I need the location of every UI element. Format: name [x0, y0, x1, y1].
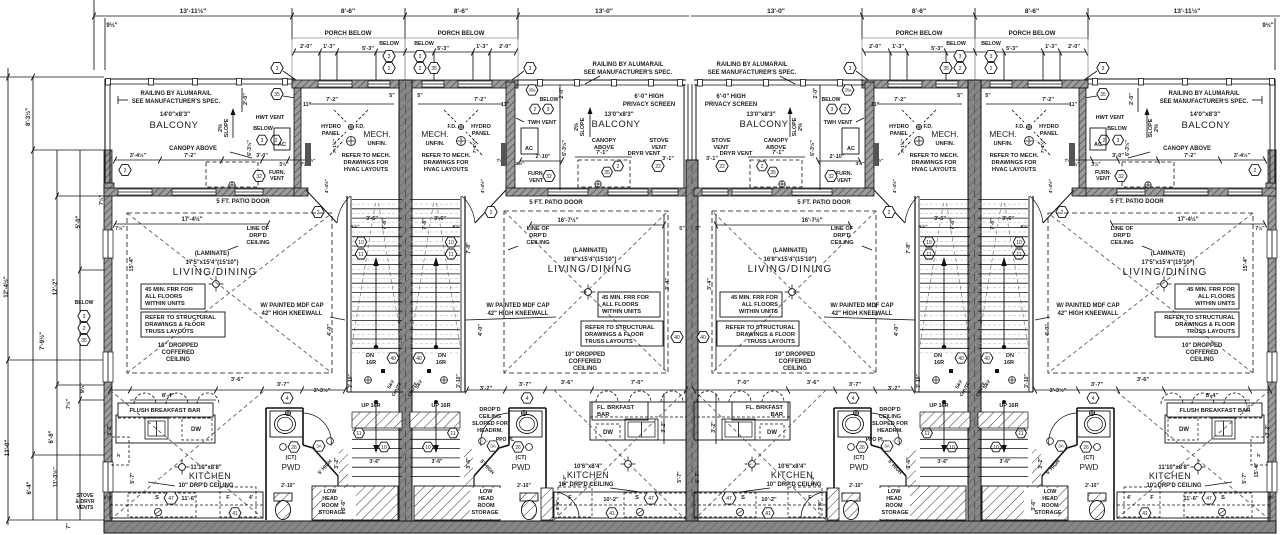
railing post — [106, 79, 111, 86]
svg-text:10: 10 — [381, 445, 387, 451]
svg-text:TWH VENT: TWH VENT — [528, 120, 557, 126]
svg-text:(CT): (CT) — [1084, 455, 1095, 461]
svg-text:SLOPE: SLOPE — [224, 118, 230, 137]
X diag kitchen2 — [554, 390, 686, 520]
svg-text:WITHIN UNITS: WITHIN UNITS — [602, 309, 641, 315]
svg-text:DRYR VENT: DRYR VENT — [628, 151, 661, 157]
svg-text:MECH.: MECH. — [989, 129, 1016, 139]
svg-text:DRP'D: DRP'D — [833, 233, 851, 239]
svg-text:W/ PAINTED MDF CAP: W/ PAINTED MDF CAP — [260, 303, 323, 309]
svg-text:4'-4½": 4'-4½" — [891, 179, 898, 193]
svg-text:(LAMINATE): (LAMINATE) — [1151, 251, 1185, 257]
svg-text:3'-4": 3'-4" — [665, 278, 671, 290]
svg-text:7½": 7½" — [1255, 225, 1265, 232]
svg-text:10'-2": 10'-2" — [761, 497, 777, 503]
X diag kitchen1 — [110, 390, 265, 520]
stool arc unit2 — [661, 391, 683, 402]
svg-text:UNFIN.: UNFIN. — [993, 141, 1012, 147]
storage hatch unit2 — [414, 486, 500, 520]
45min box unit1 — [141, 284, 205, 309]
svg-text:HYDRO: HYDRO — [1039, 124, 1060, 130]
window mech top — [318, 81, 352, 87]
svg-text:DN: DN — [438, 353, 446, 359]
svg-text:42" HIGH KNEEWALL: 42" HIGH KNEEWALL — [488, 311, 549, 317]
svg-text:3: 3 — [388, 54, 391, 60]
window patio2 — [608, 189, 648, 195]
svg-text:UP 16R: UP 16R — [929, 403, 948, 409]
counter band unit1 — [110, 492, 263, 518]
svg-text:9½": 9½" — [79, 382, 86, 393]
svg-text:F.D.: F.D. — [448, 124, 458, 130]
svg-text:3'-4½": 3'-4½" — [1234, 152, 1251, 159]
svg-text:5": 5" — [389, 93, 395, 99]
svg-text:10" DROPPED: 10" DROPPED — [1182, 343, 1223, 349]
svg-text:BELOW: BELOW — [414, 41, 434, 47]
svg-text:2': 2' — [1256, 453, 1262, 457]
svg-text:35: 35 — [431, 66, 437, 72]
margin vline x57 — [56, 150, 58, 520]
svg-text:(LAMINATE): (LAMINATE) — [195, 251, 229, 257]
svg-text:LOW: LOW — [888, 489, 902, 495]
svg-text:PRIVACY SCREEN: PRIVACY SCREEN — [623, 102, 675, 108]
entry door leaf unit2 — [552, 492, 554, 518]
svg-text:12'-4½": 12'-4½" — [3, 276, 10, 298]
svg-text:FURN.: FURN. — [836, 171, 853, 177]
svg-text:LINE OF: LINE OF — [831, 226, 854, 232]
svg-text:7'-8": 7'-8" — [906, 242, 912, 254]
door unit1 — [306, 190, 337, 223]
svg-text:11": 11" — [303, 102, 312, 108]
svg-text:3'-6": 3'-6" — [807, 380, 820, 386]
svg-text:6'-3½": 6'-3½" — [561, 140, 568, 156]
svg-text:10: 10 — [949, 445, 955, 451]
window mech top — [458, 81, 492, 87]
svg-text:11: 11 — [926, 252, 931, 258]
svg-text:3'-0": 3'-0" — [256, 153, 268, 159]
dim extension x518 — [517, 8, 519, 40]
svg-text:47: 47 — [648, 496, 654, 502]
svg-text:DRP'D: DRP'D — [249, 233, 267, 239]
svg-text:32: 32 — [828, 174, 834, 180]
svg-text:4'-0": 4'-0" — [478, 324, 484, 336]
svg-text:LIVING/DINING: LIVING/DINING — [548, 264, 633, 275]
svg-text:DRAWINGS & FLOOR: DRAWINGS & FLOOR — [585, 332, 645, 338]
svg-text:LOW: LOW — [1044, 489, 1058, 495]
svg-text:13'-11½": 13'-11½" — [1174, 7, 1201, 15]
margin hline y196 — [57, 195, 104, 197]
svg-text:10: 10 — [993, 445, 999, 451]
svg-text:32: 32 — [1118, 174, 1124, 180]
svg-text:STOVE: STOVE — [711, 138, 730, 144]
sun kitchen2 — [625, 461, 632, 468]
svg-text:8'-6": 8'-6" — [454, 8, 468, 15]
svg-text:2'-0": 2'-0" — [1068, 44, 1080, 50]
svg-text:14'0"x8'3": 14'0"x8'3" — [160, 111, 190, 118]
svg-text:BELOW: BELOW — [379, 41, 399, 47]
svg-text:COFFERED: COFFERED — [1186, 350, 1219, 356]
svg-text:BALCONY: BALCONY — [150, 120, 199, 131]
svg-text:UP 16R: UP 16R — [999, 403, 1018, 409]
svg-text:3'-7": 3'-7" — [277, 382, 290, 388]
svg-text:10'-2": 10'-2" — [603, 497, 619, 503]
svg-text:HEAD: HEAD — [1042, 496, 1058, 502]
hex3 inner — [524, 63, 536, 74]
svg-text:22: 22 — [655, 164, 661, 170]
svg-text:5": 5" — [695, 226, 701, 232]
svg-text:7'-2": 7'-2" — [474, 97, 486, 103]
svg-text:6½": 6½" — [452, 223, 461, 230]
svg-text:FL. BRKFAST: FL. BRKFAST — [597, 405, 635, 411]
svg-text:REFER TO MECH.: REFER TO MECH. — [422, 153, 471, 159]
svg-text:(LAMINATE): (LAMINATE) — [573, 248, 607, 254]
svg-text:2'-10": 2'-10" — [517, 483, 531, 489]
svg-text:DROP'D: DROP'D — [479, 407, 500, 413]
svg-text:CEILING: CEILING — [573, 366, 597, 372]
svg-text:S: S — [635, 495, 639, 501]
svg-text:4'-0": 4'-0" — [327, 324, 333, 336]
svg-text:42" HIGH KNEEWALL: 42" HIGH KNEEWALL — [832, 311, 893, 317]
svg-text:16'-7½": 16'-7½" — [557, 217, 578, 224]
svg-text:TRUSS LAYOUTS: TRUSS LAYOUTS — [1186, 329, 1235, 335]
counter unit1 — [116, 415, 215, 443]
dw unit1 — [182, 418, 212, 440]
svg-text:SLOPE: SLOPE — [792, 117, 798, 136]
svg-text:5'-3": 5'-3" — [1006, 46, 1018, 52]
svg-text:16R: 16R — [366, 360, 376, 366]
X diag living1 — [127, 213, 332, 373]
window left wall — [103, 462, 113, 492]
svg-text:2: 2 — [490, 210, 493, 216]
svg-text:32: 32 — [256, 174, 262, 180]
svg-text:DROP'D: DROP'D — [879, 407, 900, 413]
svg-text:3: 3 — [831, 107, 834, 113]
svg-text:MECH.: MECH. — [363, 129, 390, 139]
svg-text:KITCHEN: KITCHEN — [189, 471, 231, 481]
svg-text:16R: 16R — [436, 360, 446, 366]
svg-text:7½": 7½" — [65, 398, 72, 409]
svg-text:COFFERED: COFFERED — [162, 350, 195, 356]
svg-text:WITHIN UNITS: WITHIN UNITS — [1195, 301, 1235, 307]
svg-text:3'-2": 3'-2" — [107, 424, 113, 436]
svg-text:35: 35 — [943, 66, 949, 72]
hex2 balcony1 — [119, 165, 131, 176]
svg-text:SEE MANUFACTURER'S SPEC.: SEE MANUFACTURER'S SPEC. — [708, 70, 797, 76]
svg-text:11": 11" — [1069, 102, 1078, 108]
svg-text:BALCONY: BALCONY — [740, 119, 789, 130]
balcony1 corner block — [104, 183, 114, 193]
counter unit2 — [590, 402, 686, 440]
window patio2 — [652, 189, 678, 195]
svg-text:SEE MANUFACTURER'S SPEC.: SEE MANUFACTURER'S SPEC. — [132, 99, 221, 105]
svg-text:HEADRM.: HEADRM. — [877, 428, 903, 434]
svg-text:3½": 3½" — [1091, 161, 1101, 168]
svg-text:SLOPED FOR: SLOPED FOR — [472, 421, 508, 427]
svg-text:CANOPY ABOVE: CANOPY ABOVE — [169, 146, 217, 152]
svg-text:17'5"x15'4"(15'10"): 17'5"x15'4"(15'10") — [1142, 260, 1195, 266]
svg-text:7'-2": 7'-2" — [1184, 153, 1196, 159]
svg-text:3: 3 — [849, 66, 852, 72]
svg-text:16'8"x15'4"(15'10"): 16'8"x15'4"(15'10") — [564, 257, 617, 263]
margin hline y520 — [8, 519, 104, 521]
AC box unit2 — [521, 128, 538, 154]
window patio2 — [548, 189, 588, 195]
svg-text:SLOPE: SLOPE — [1148, 118, 1154, 137]
margin vline x80 — [79, 150, 81, 520]
svg-text:15'-4": 15'-4" — [1243, 256, 1249, 271]
range unit1 — [145, 418, 168, 439]
svg-text:SLOPED FOR: SLOPED FOR — [872, 421, 908, 427]
svg-text:3: 3 — [261, 138, 264, 144]
svg-text:CEILING: CEILING — [479, 414, 501, 420]
svg-text:22: 22 — [719, 164, 725, 170]
svg-text:COFFERED: COFFERED — [779, 359, 812, 365]
cab F unit1 — [220, 487, 256, 517]
svg-text:ALL FLOORS: ALL FLOORS — [1198, 294, 1235, 300]
svg-text:2%: 2% — [798, 123, 804, 131]
svg-text:7'-2": 7'-2" — [184, 153, 196, 159]
dim line unit2 y390 — [467, 389, 686, 391]
sun living2 — [585, 289, 592, 296]
dim line unit1 y390 — [110, 389, 345, 391]
svg-text:45 MIN. FRR FOR: 45 MIN. FRR FOR — [731, 295, 779, 301]
svg-text:2: 2 — [888, 210, 891, 216]
svg-text:2'-0": 2'-0" — [559, 87, 565, 98]
svg-text:KITCHEN: KITCHEN — [1149, 471, 1191, 481]
svg-text:11'-6": 11'-6" — [181, 496, 196, 502]
svg-text:3: 3 — [529, 66, 532, 72]
svg-text:7½": 7½" — [1245, 402, 1252, 412]
porch outline unit2 — [405, 38, 518, 88]
svg-text:2: 2 — [959, 66, 962, 72]
cab left wall unit1 — [112, 437, 129, 465]
svg-text:3: 3 — [276, 66, 279, 72]
svg-text:FL. BRKFAST: FL. BRKFAST — [746, 405, 784, 411]
sink unit1 — [154, 508, 161, 515]
counter band unit2 — [554, 492, 686, 518]
svg-text:35a: 35a — [845, 88, 853, 93]
svg-text:HEADRM.: HEADRM. — [477, 428, 503, 434]
railing post — [193, 79, 198, 86]
svg-text:ROOM: ROOM — [321, 503, 339, 509]
svg-text:12'-2": 12'-2" — [53, 279, 59, 296]
margin hline y150 — [33, 149, 104, 151]
svg-text:4: 4 — [526, 396, 529, 402]
svg-text:16R: 16R — [1004, 360, 1014, 366]
svg-text:47: 47 — [168, 496, 174, 502]
dim extension x292 — [291, 8, 293, 40]
svg-text:3'-2": 3'-2" — [1038, 457, 1044, 469]
svg-text:1'-3": 1'-3" — [1045, 44, 1057, 50]
svg-text:2'-10": 2'-10" — [830, 154, 845, 160]
svg-text:3'-10": 3'-10" — [1024, 374, 1030, 388]
window left wall — [103, 230, 113, 258]
svg-text:3'-7": 3'-7" — [1091, 382, 1104, 388]
svg-text:26: 26 — [291, 445, 297, 451]
svg-text:6'-3½": 6'-3½" — [1124, 140, 1131, 156]
svg-text:13'-11½": 13'-11½" — [180, 7, 207, 15]
svg-text:10" DRP'D CEILING: 10" DRP'D CEILING — [178, 483, 233, 489]
svg-text:BELOW: BELOW — [540, 97, 559, 103]
svg-text:2: 2 — [761, 164, 764, 170]
svg-text:STOVE: STOVE — [649, 138, 668, 144]
svg-text:5'-3": 5'-3" — [931, 46, 943, 52]
svg-text:RAILING BY ALUMARAIL: RAILING BY ALUMARAIL — [593, 62, 664, 68]
svg-text:PWD: PWD — [1080, 463, 1099, 472]
balcony1 railing top — [105, 78, 294, 80]
svg-text:3'-2": 3'-2" — [888, 386, 901, 392]
svg-text:47: 47 — [1206, 496, 1212, 502]
svg-text:UP 16R: UP 16R — [431, 403, 450, 409]
svg-text:1'-3": 1'-3" — [892, 44, 904, 50]
svg-text:3'-10": 3'-10" — [348, 374, 354, 388]
svg-text:41: 41 — [765, 511, 771, 517]
svg-text:3'-2": 3'-2" — [1265, 424, 1271, 436]
svg-text:W/ PAINTED MDF CAP: W/ PAINTED MDF CAP — [486, 303, 549, 309]
svg-text:4'-0": 4'-0" — [894, 324, 900, 336]
door arc — [462, 196, 475, 223]
window mech top — [422, 81, 444, 87]
window patio1 — [118, 189, 152, 195]
svg-text:HVAC LAYOUTS: HVAC LAYOUTS — [424, 167, 468, 173]
drpd ceiling unit2 — [504, 211, 668, 373]
svg-text:10" DRP'D CEILING: 10" DRP'D CEILING — [1146, 483, 1201, 489]
svg-text:6'-4": 6'-4" — [27, 481, 33, 494]
svg-text:45 MIN. FRR FOR: 45 MIN. FRR FOR — [1187, 287, 1236, 293]
svg-text:LOW: LOW — [324, 489, 338, 495]
svg-text:UNFIN.: UNFIN. — [367, 141, 386, 147]
svg-text:W/ PAINTED MDF CAP: W/ PAINTED MDF CAP — [830, 303, 893, 309]
svg-text:AC: AC — [278, 142, 286, 148]
cab F unit2 — [558, 487, 592, 517]
svg-text:2'-0": 2'-0" — [243, 93, 249, 105]
svg-text:2'-0": 2'-0" — [1129, 93, 1135, 105]
svg-text:2: 2 — [1254, 168, 1257, 174]
svg-text:MECH.: MECH. — [421, 129, 448, 139]
svg-text:(CT): (CT) — [286, 455, 297, 461]
svg-text:7'-8": 7'-8" — [422, 218, 428, 230]
svg-text:3'-4": 3'-4" — [707, 278, 713, 290]
hex4 unit1 — [281, 393, 293, 403]
svg-text:3'-6": 3'-6" — [561, 380, 574, 386]
svg-text:ALL FLOORS: ALL FLOORS — [602, 302, 639, 308]
svg-text:3'-6": 3'-6" — [817, 500, 823, 510]
svg-text:2'-10": 2'-10" — [1085, 483, 1099, 489]
svg-text:6'-8": 6'-8" — [49, 430, 55, 443]
porch outline unit1 — [292, 38, 405, 88]
refer structural box unit1 — [141, 312, 225, 337]
svg-text:7'-1¼": 7'-1¼" — [1039, 139, 1046, 153]
svg-text:BALCONY: BALCONY — [1182, 120, 1231, 131]
svg-text:PANEL: PANEL — [472, 131, 491, 137]
svg-text:STORAGE: STORAGE — [881, 510, 908, 516]
svg-text:40: 40 — [700, 335, 706, 341]
svg-text:7": 7" — [66, 523, 72, 529]
svg-text:SEE MANUFACTURER'S SPEC.: SEE MANUFACTURER'S SPEC. — [1160, 99, 1249, 105]
svg-text:7'-8": 7'-8" — [466, 242, 472, 254]
refer structural box unit2 — [581, 321, 663, 346]
hex35 canopy2 — [602, 167, 613, 177]
AC box unit1 — [274, 128, 290, 150]
svg-text:VENT: VENT — [837, 178, 852, 184]
svg-text:45 MIN. FRR FOR: 45 MIN. FRR FOR — [145, 287, 194, 293]
svg-text:7'-1¼": 7'-1¼" — [899, 139, 906, 153]
svg-text:47: 47 — [726, 496, 732, 502]
svg-text:7'-1¼": 7'-1¼" — [331, 139, 338, 153]
svg-text:DRAWINGS & FLOOR: DRAWINGS & FLOOR — [1175, 322, 1236, 328]
svg-text:32: 32 — [546, 174, 552, 180]
svg-text:PWD: PWD — [282, 463, 301, 472]
dim extension x405 — [404, 8, 406, 40]
svg-text:VENT: VENT — [270, 176, 285, 182]
storage hatch unit1 — [312, 486, 398, 520]
stool arc unit1 — [134, 393, 156, 404]
svg-text:16'8"x15'4"(15'10"): 16'8"x15'4"(15'10") — [764, 257, 817, 263]
svg-text:WITHIN UNITS: WITHIN UNITS — [739, 309, 778, 315]
dim extension x94 — [93, 0, 95, 70]
svg-text:HEAD: HEAD — [478, 496, 494, 502]
svg-text:2'-0": 2'-0" — [300, 44, 312, 50]
margin vline x8 — [7, 68, 9, 525]
patio wall unit2 — [506, 188, 686, 196]
door unit2 — [475, 190, 506, 223]
svg-text:PPO PL: PPO PL — [866, 437, 885, 443]
mech top wall band — [292, 80, 518, 88]
cab S47 unit2 — [624, 493, 686, 517]
party wall 1 centerline — [405, 82, 407, 531]
railing post — [149, 79, 154, 86]
slope arrow balcony2 — [588, 107, 593, 114]
svg-text:4: 4 — [852, 396, 855, 402]
svg-text:ROOM: ROOM — [477, 503, 495, 509]
svg-text:40: 40 — [958, 356, 964, 362]
svg-text:13'0"x8'3": 13'0"x8'3" — [604, 111, 633, 118]
stair unit1 — [346, 196, 348, 392]
svg-text:FURN.: FURN. — [528, 171, 545, 177]
svg-text:AC: AC — [525, 146, 533, 152]
hex3 left — [271, 63, 283, 74]
patio wall unit1 — [104, 188, 298, 196]
svg-text:3A: 3A — [490, 444, 497, 449]
svg-text:RAILING BY ALUMARAIL: RAILING BY ALUMARAIL — [141, 91, 212, 97]
wall stub unit1 door — [294, 188, 308, 196]
svg-text:2'-2": 2'-2" — [562, 475, 568, 485]
svg-text:3'-1": 3'-1" — [706, 156, 718, 162]
dim extension x105 — [104, 18, 106, 70]
svg-text:5'-3": 5'-3" — [362, 46, 374, 52]
svg-text:41: 41 — [609, 511, 615, 517]
svg-text:BAR: BAR — [597, 412, 610, 418]
window patio1 — [235, 189, 263, 195]
svg-text:ALL FLOORS: ALL FLOORS — [145, 294, 182, 300]
svg-text:3A: 3A — [1058, 444, 1065, 449]
svg-text:SLOPE: SLOPE — [580, 117, 586, 136]
svg-text:PANEL: PANEL — [1040, 131, 1059, 137]
svg-text:HWT VENT: HWT VENT — [256, 115, 285, 121]
45min box unit2 — [598, 292, 660, 317]
svg-text:26: 26 — [1083, 445, 1089, 451]
svg-text:DRAWINGS FOR: DRAWINGS FOR — [423, 160, 469, 166]
cab S47 unit1 — [128, 493, 196, 517]
svg-text:4'-0": 4'-0" — [1045, 324, 1051, 336]
svg-text:3'-1": 3'-1" — [662, 156, 674, 162]
svg-text:11'-6": 11'-6" — [1183, 496, 1198, 502]
svg-text:41: 41 — [1142, 511, 1148, 517]
slope arrow balcony1 — [231, 108, 236, 115]
svg-text:S: S — [155, 495, 159, 501]
hex22 dryr — [652, 161, 664, 172]
svg-text:TWH VENT: TWH VENT — [824, 120, 853, 126]
svg-text:4'-4½": 4'-4½" — [323, 179, 330, 193]
